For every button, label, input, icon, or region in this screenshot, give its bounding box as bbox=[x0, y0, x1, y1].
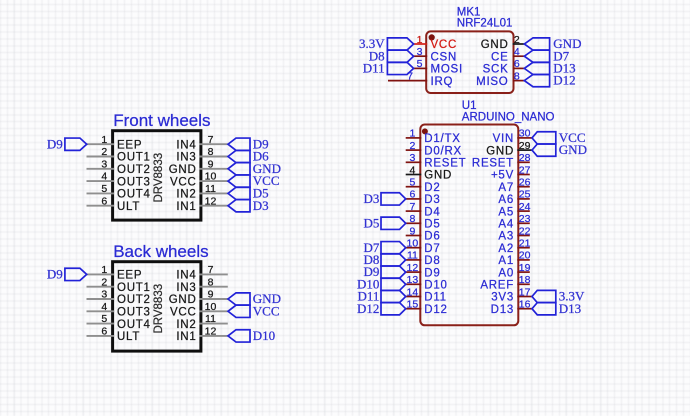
svg-text:13: 13 bbox=[407, 274, 419, 286]
net label D9 (global label flag at U2 pin 7) bbox=[228, 136, 269, 151]
reference MK1 bbox=[457, 7, 481, 19]
svg-text:4: 4 bbox=[409, 164, 415, 176]
svg-text:12: 12 bbox=[407, 262, 419, 274]
net label D8 (global label flag at U1 left) bbox=[364, 252, 406, 267]
svg-text:1: 1 bbox=[417, 34, 423, 46]
pin 8 IN3 of U2 bbox=[176, 146, 227, 164]
value NRF24L01 bbox=[457, 18, 513, 30]
pin 4 GND of U1 bbox=[406, 164, 452, 181]
net label D6 (global label flag at U2 pin 8) bbox=[228, 149, 269, 164]
svg-text:D13: D13 bbox=[491, 304, 514, 316]
svg-text:2: 2 bbox=[409, 140, 415, 152]
svg-text:IN4: IN4 bbox=[176, 139, 196, 151]
pin 7 IRQ of MK1 bbox=[388, 70, 453, 87]
svg-text:9: 9 bbox=[409, 225, 415, 237]
svg-text:D8: D8 bbox=[424, 255, 440, 267]
pin 2 OUT1 of U3 bbox=[87, 276, 151, 294]
svg-text:5: 5 bbox=[409, 177, 415, 189]
svg-text:A1: A1 bbox=[498, 255, 514, 267]
svg-text:11: 11 bbox=[205, 183, 216, 195]
pin 4 OUT3 of U3 bbox=[87, 301, 151, 319]
svg-text:D3: D3 bbox=[364, 191, 380, 206]
svg-text:D11: D11 bbox=[424, 292, 447, 304]
pin 30 VIN of U1 bbox=[493, 128, 532, 145]
pin 2 GND of MK1 bbox=[481, 34, 525, 51]
pin 4 CE of MK1 bbox=[491, 46, 524, 63]
net label D5 (global label flag at U2 pin 11) bbox=[228, 186, 269, 201]
svg-text:A7: A7 bbox=[498, 182, 514, 194]
svg-text:IN1: IN1 bbox=[176, 201, 196, 213]
svg-text:D5: D5 bbox=[424, 219, 440, 231]
net label D13 (global label flag at U1 right) bbox=[532, 301, 581, 316]
svg-text:19: 19 bbox=[519, 262, 531, 274]
pin 6 SCK of MK1 bbox=[483, 58, 525, 75]
IC MK1 NRF24L01 body bbox=[426, 31, 513, 93]
pin 3 CSN of MK1 bbox=[414, 46, 457, 63]
svg-text:D12: D12 bbox=[424, 304, 447, 316]
svg-text:28: 28 bbox=[519, 152, 531, 164]
pin 6 D3 of U1 bbox=[406, 189, 441, 206]
net label D11 (global label flag at MK1 left) bbox=[363, 61, 414, 76]
pin 6 ULT of U3 bbox=[87, 326, 141, 344]
svg-text:IN3: IN3 bbox=[176, 152, 196, 164]
pin 18 AREF of U1 bbox=[480, 274, 530, 291]
svg-text:9: 9 bbox=[208, 158, 214, 170]
svg-text:4: 4 bbox=[101, 171, 107, 183]
svg-text:OUT1: OUT1 bbox=[117, 282, 151, 294]
svg-text:23: 23 bbox=[519, 213, 531, 225]
reference U1 bbox=[462, 100, 477, 112]
pin 8 IN3 of U3 bbox=[176, 276, 227, 294]
svg-text:3: 3 bbox=[417, 46, 423, 58]
pin 5 OUT4 of U2 bbox=[87, 183, 151, 201]
svg-text:AREF: AREF bbox=[480, 280, 514, 292]
net label 3.3V (global label flag at U1 right) bbox=[532, 289, 585, 304]
pin 7 IN4 of U3 bbox=[176, 264, 227, 282]
svg-text:A0: A0 bbox=[498, 267, 514, 279]
svg-text:NRF24L01: NRF24L01 bbox=[457, 18, 513, 30]
svg-text:25: 25 bbox=[519, 189, 531, 201]
net label D10 (global label flag at U3 pin 12) bbox=[228, 328, 275, 343]
svg-text:17: 17 bbox=[519, 286, 531, 298]
pin 9 GND of U2 bbox=[169, 158, 228, 176]
svg-text:30: 30 bbox=[519, 128, 531, 140]
svg-text:A2: A2 bbox=[498, 243, 514, 255]
svg-text:10: 10 bbox=[205, 301, 217, 313]
svg-text:1: 1 bbox=[409, 128, 415, 140]
svg-text:U1: U1 bbox=[462, 100, 477, 112]
net label GND (global label flag at U1 right) bbox=[532, 142, 587, 157]
pin 17 3V3 of U1 bbox=[491, 286, 532, 303]
svg-text:D12: D12 bbox=[553, 73, 575, 88]
pin 12 IN1 of U3 bbox=[176, 326, 227, 344]
pin 10 D7 of U1 bbox=[406, 238, 441, 255]
pin 12 D9 of U1 bbox=[406, 262, 441, 279]
pin 27 +5V of U1 bbox=[491, 164, 531, 181]
svg-text:D13: D13 bbox=[559, 301, 581, 316]
svg-text:11: 11 bbox=[407, 250, 418, 262]
IC U1 ARDUINO_NANO body bbox=[420, 125, 518, 326]
IC U3 DRV8833 body (Back wheels) bbox=[113, 262, 201, 351]
svg-text:8: 8 bbox=[409, 213, 415, 225]
svg-text:A3: A3 bbox=[498, 231, 514, 243]
svg-text:26: 26 bbox=[519, 177, 531, 189]
svg-text:OUT3: OUT3 bbox=[117, 307, 151, 319]
svg-text:IN2: IN2 bbox=[176, 319, 196, 331]
svg-text:SCK: SCK bbox=[483, 64, 509, 76]
pin 11 IN2 of U3 bbox=[176, 313, 227, 331]
svg-text:12: 12 bbox=[205, 326, 217, 338]
pin 7 D4 of U1 bbox=[406, 201, 441, 218]
pin 6 ULT of U2 bbox=[87, 195, 141, 213]
value DRV8833 (vertical) of U2 bbox=[153, 153, 165, 203]
svg-text:12: 12 bbox=[205, 195, 217, 207]
svg-text:OUT4: OUT4 bbox=[117, 189, 151, 201]
value DRV8833 (vertical) of U3 bbox=[153, 284, 165, 334]
pin 2 D0/RX of U1 bbox=[406, 140, 462, 157]
svg-text:7: 7 bbox=[208, 134, 214, 146]
svg-text:D9: D9 bbox=[424, 267, 440, 279]
pin-1 marker dot U1 bbox=[422, 128, 428, 134]
svg-text:27: 27 bbox=[519, 164, 531, 176]
pin 12 IN1 of U2 bbox=[176, 195, 227, 213]
net label D8 (global label flag at MK1 left) bbox=[369, 48, 414, 63]
pin 20 A1 of U1 bbox=[498, 250, 530, 267]
svg-text:3: 3 bbox=[101, 158, 107, 170]
pin 16 D13 of U1 bbox=[491, 299, 532, 316]
svg-text:29: 29 bbox=[519, 140, 531, 152]
svg-text:8: 8 bbox=[208, 276, 214, 288]
pin 7 IN4 of U2 bbox=[176, 134, 227, 152]
svg-text:A5: A5 bbox=[498, 206, 514, 218]
pin 25 A6 of U1 bbox=[498, 189, 530, 206]
pin 23 A4 of U1 bbox=[498, 213, 530, 230]
net label D12 (global label flag at U1 left) bbox=[357, 301, 406, 316]
svg-text:+5V: +5V bbox=[491, 170, 514, 182]
svg-text:RESET: RESET bbox=[472, 158, 514, 170]
svg-text:D10: D10 bbox=[424, 280, 447, 292]
pin 10 VCC of U3 bbox=[170, 301, 228, 319]
svg-text:A6: A6 bbox=[498, 194, 514, 206]
svg-text:OUT2: OUT2 bbox=[117, 164, 151, 176]
net label GND (global label flag at U2 pin 9) bbox=[228, 161, 281, 176]
svg-text:16: 16 bbox=[519, 299, 531, 311]
pin 1 VCC of MK1 bbox=[414, 34, 457, 51]
pin 14 D11 of U1 bbox=[406, 286, 447, 303]
pin 13 D10 of U1 bbox=[406, 274, 448, 291]
pin 11 IN2 of U2 bbox=[176, 183, 227, 201]
svg-text:GND: GND bbox=[481, 39, 509, 51]
svg-text:D4: D4 bbox=[424, 206, 440, 218]
svg-text:GND: GND bbox=[486, 145, 514, 157]
pin 10 VCC of U2 bbox=[170, 171, 228, 189]
svg-text:9: 9 bbox=[208, 289, 214, 301]
svg-text:VIN: VIN bbox=[493, 133, 514, 145]
label Front wheels bbox=[113, 111, 210, 130]
svg-text:OUT1: OUT1 bbox=[117, 152, 151, 164]
pin 24 A5 of U1 bbox=[498, 201, 530, 218]
svg-text:GND: GND bbox=[169, 294, 197, 306]
svg-text:Front wheels: Front wheels bbox=[113, 111, 210, 130]
net label D13 (global label flag at MK1 right) bbox=[524, 61, 575, 76]
net label GND (global label flag at MK1 right) bbox=[524, 36, 581, 51]
label Back wheels bbox=[113, 242, 208, 261]
svg-text:GND: GND bbox=[559, 142, 587, 157]
net label D3 (global label flag at U1 left) bbox=[364, 191, 406, 206]
svg-text:10: 10 bbox=[407, 238, 419, 250]
svg-text:CE: CE bbox=[491, 51, 508, 63]
svg-text:IN1: IN1 bbox=[176, 331, 196, 343]
svg-text:7: 7 bbox=[208, 264, 214, 276]
svg-text:ULT: ULT bbox=[117, 201, 140, 213]
pin-1 marker dot MK1 bbox=[429, 34, 435, 40]
svg-text:15: 15 bbox=[407, 299, 419, 311]
pin 3 RESET of U1 bbox=[406, 152, 467, 169]
svg-text:24: 24 bbox=[519, 201, 531, 213]
net label D11 (global label flag at U1 left) bbox=[357, 289, 405, 304]
pin 9 GND of U3 bbox=[169, 289, 228, 307]
svg-text:1: 1 bbox=[101, 264, 107, 276]
svg-text:D1/TX: D1/TX bbox=[424, 133, 460, 145]
svg-text:DRV8833: DRV8833 bbox=[153, 153, 165, 203]
pin 28 RESET of U1 bbox=[472, 152, 531, 169]
svg-text:6: 6 bbox=[514, 58, 520, 70]
svg-text:5: 5 bbox=[417, 58, 423, 70]
net label D7 (global label flag at MK1 right) bbox=[524, 48, 569, 63]
svg-text:2: 2 bbox=[101, 276, 107, 288]
svg-text:D2: D2 bbox=[424, 182, 440, 194]
svg-text:D9: D9 bbox=[47, 267, 63, 282]
svg-text:14: 14 bbox=[407, 286, 419, 298]
svg-text:5: 5 bbox=[101, 183, 107, 195]
svg-text:4: 4 bbox=[101, 301, 107, 313]
svg-text:20: 20 bbox=[519, 250, 531, 262]
svg-text:VCC: VCC bbox=[431, 39, 458, 51]
svg-text:ARDUINO_NANO: ARDUINO_NANO bbox=[462, 111, 555, 123]
svg-text:6: 6 bbox=[101, 326, 107, 338]
svg-text:IN4: IN4 bbox=[176, 270, 196, 282]
svg-text:2: 2 bbox=[514, 34, 520, 46]
svg-text:GND: GND bbox=[169, 164, 197, 176]
net label D10 (global label flag at U1 left) bbox=[357, 276, 406, 291]
svg-text:5: 5 bbox=[101, 313, 107, 325]
pin 22 A3 of U1 bbox=[498, 225, 530, 242]
svg-text:3: 3 bbox=[101, 289, 107, 301]
svg-text:7: 7 bbox=[409, 201, 415, 213]
svg-text:IN3: IN3 bbox=[176, 282, 196, 294]
pin 1 EEP of U2 bbox=[87, 134, 143, 152]
svg-text:RESET: RESET bbox=[424, 158, 466, 170]
svg-text:D10: D10 bbox=[253, 328, 275, 343]
svg-text:D11: D11 bbox=[363, 61, 385, 76]
svg-text:OUT3: OUT3 bbox=[117, 176, 151, 188]
pin 29 GND of U1 bbox=[486, 140, 532, 157]
svg-text:10: 10 bbox=[205, 171, 217, 183]
svg-text:OUT2: OUT2 bbox=[117, 294, 151, 306]
pin 8 MISO of MK1 bbox=[476, 70, 524, 87]
svg-text:11: 11 bbox=[205, 313, 216, 325]
pin 21 A2 of U1 bbox=[498, 238, 530, 255]
svg-text:D3: D3 bbox=[424, 194, 440, 206]
net label D5 (global label flag at U1 left) bbox=[364, 215, 406, 230]
net label VCC (global label flag at U1 right) bbox=[532, 130, 586, 145]
svg-text:8: 8 bbox=[208, 146, 214, 158]
svg-text:MOSI: MOSI bbox=[431, 64, 463, 76]
net label D9 (global label flag at U3 pin 1) bbox=[47, 267, 87, 282]
pin 9 D6 of U1 bbox=[406, 225, 441, 242]
svg-text:VCC: VCC bbox=[253, 303, 280, 318]
svg-text:D12: D12 bbox=[357, 301, 379, 316]
svg-text:DRV8833: DRV8833 bbox=[153, 284, 165, 334]
pin 1 D1/TX of U1 bbox=[406, 128, 461, 145]
pin 5 D2 of U1 bbox=[406, 177, 441, 194]
svg-text:4: 4 bbox=[514, 46, 520, 58]
svg-text:D6: D6 bbox=[424, 231, 440, 243]
svg-text:6: 6 bbox=[409, 189, 415, 201]
net label VCC (global label flag at U2 pin 10) bbox=[228, 173, 280, 188]
svg-text:D5: D5 bbox=[364, 215, 380, 230]
svg-text:18: 18 bbox=[519, 274, 531, 286]
svg-text:CSN: CSN bbox=[431, 51, 458, 63]
pin 2 OUT1 of U2 bbox=[87, 146, 151, 164]
svg-text:21: 21 bbox=[519, 238, 531, 250]
value ARDUINO_NANO bbox=[462, 111, 555, 123]
pin 26 A7 of U1 bbox=[498, 177, 530, 194]
svg-text:1: 1 bbox=[101, 134, 107, 146]
svg-text:A4: A4 bbox=[498, 219, 514, 231]
pin 5 OUT4 of U3 bbox=[87, 313, 151, 331]
svg-text:MISO: MISO bbox=[476, 76, 508, 88]
svg-text:22: 22 bbox=[519, 225, 531, 237]
svg-text:EEP: EEP bbox=[117, 270, 142, 282]
svg-text:D3: D3 bbox=[253, 198, 269, 213]
net label D12 (global label flag at MK1 right) bbox=[524, 73, 575, 88]
net label GND (global label flag at U3 pin 9) bbox=[228, 291, 281, 306]
pin 1 EEP of U3 bbox=[87, 264, 143, 282]
svg-text:D9: D9 bbox=[47, 136, 63, 151]
svg-text:ULT: ULT bbox=[117, 331, 140, 343]
pin 5 MOSI of MK1 bbox=[414, 58, 463, 75]
svg-text:6: 6 bbox=[101, 195, 107, 207]
pin 15 D12 of U1 bbox=[406, 299, 448, 316]
pin 3 OUT2 of U3 bbox=[87, 289, 151, 307]
svg-text:IN2: IN2 bbox=[176, 189, 196, 201]
svg-text:3: 3 bbox=[409, 152, 415, 164]
net label VCC (global label flag at U3 pin 10) bbox=[228, 303, 280, 318]
svg-text:OUT4: OUT4 bbox=[117, 319, 151, 331]
pin 3 OUT2 of U2 bbox=[87, 158, 151, 176]
svg-text:D7: D7 bbox=[424, 243, 440, 255]
svg-text:2: 2 bbox=[101, 146, 107, 158]
svg-text:8: 8 bbox=[514, 70, 520, 82]
net label 3.3V (global label flag at MK1 left) bbox=[359, 36, 414, 51]
net label D7 (global label flag at U1 left) bbox=[364, 240, 406, 255]
pin 8 D5 of U1 bbox=[406, 213, 441, 230]
svg-text:IRQ: IRQ bbox=[431, 76, 454, 88]
pin 19 A0 of U1 bbox=[498, 262, 530, 279]
svg-text:Back wheels: Back wheels bbox=[113, 242, 208, 261]
svg-text:D0/RX: D0/RX bbox=[424, 145, 462, 157]
net label D9 (global label flag at U1 left) bbox=[364, 264, 406, 279]
net label D9 (global label flag at U2 pin 1) bbox=[47, 136, 87, 151]
IC U2 DRV8833 body (Front wheels) bbox=[113, 131, 201, 220]
pin 11 D8 of U1 bbox=[406, 250, 441, 267]
pin 4 OUT3 of U2 bbox=[87, 171, 151, 189]
svg-text:VCC: VCC bbox=[170, 307, 197, 319]
net label D3 (global label flag at U2 pin 12) bbox=[228, 198, 269, 213]
svg-text:GND: GND bbox=[424, 170, 452, 182]
svg-text:3V3: 3V3 bbox=[491, 292, 514, 304]
svg-text:EEP: EEP bbox=[117, 139, 142, 151]
svg-text:VCC: VCC bbox=[170, 176, 197, 188]
